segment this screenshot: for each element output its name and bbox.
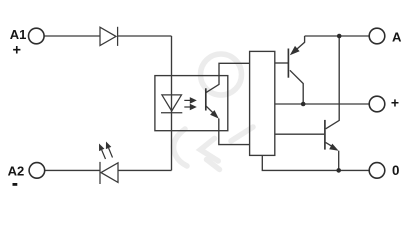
svg-text:+: + [391,95,399,111]
svg-text:A: A [392,29,402,44]
svg-text:A2: A2 [8,163,25,178]
svg-text:+: + [13,43,22,59]
svg-text:A1: A1 [10,27,27,42]
svg-text:0: 0 [392,163,399,178]
